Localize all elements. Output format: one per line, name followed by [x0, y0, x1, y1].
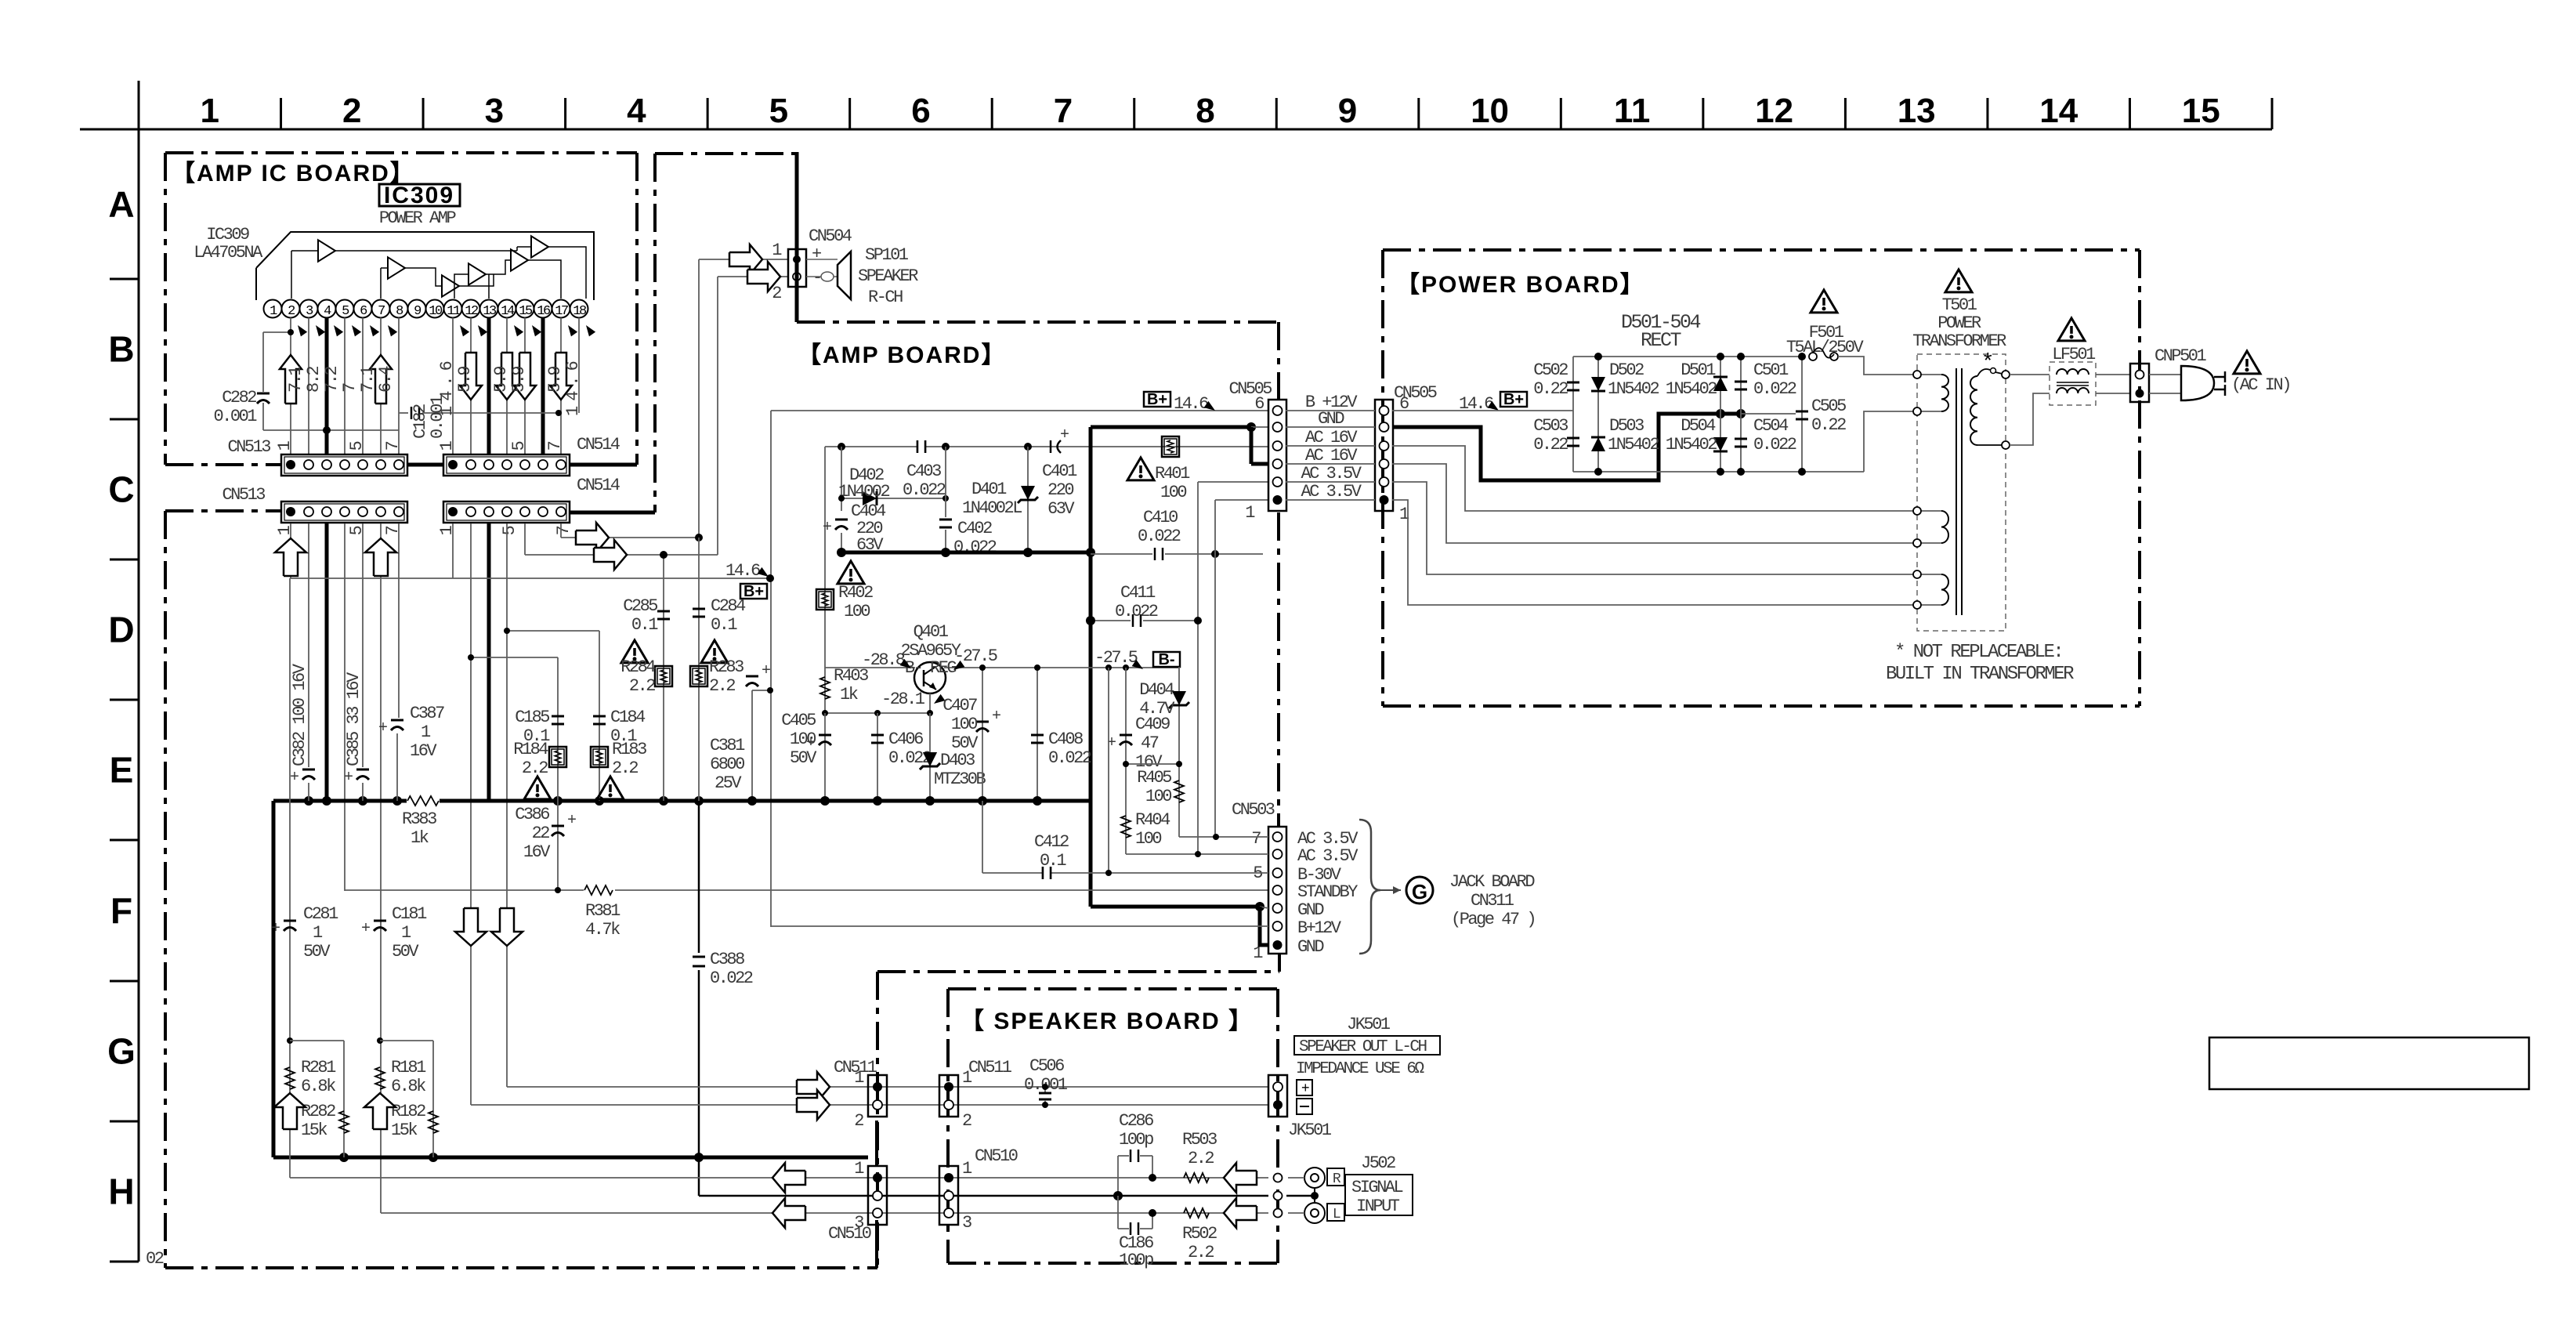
svg-text:R281: R281: [301, 1058, 336, 1077]
svg-text:0.001: 0.001: [213, 407, 257, 426]
svg-text:C382 100 16V: C382 100 16V: [290, 663, 309, 766]
svg-text:【AMP IC BOARD】: 【AMP IC BOARD】: [172, 161, 415, 186]
svg-text:5: 5: [347, 441, 367, 451]
svg-text:CNP501: CNP501: [2155, 346, 2207, 366]
svg-text:SP101: SP101: [865, 245, 909, 265]
svg-text:R404: R404: [1135, 810, 1170, 830]
svg-text:D504: D504: [1681, 416, 1716, 436]
svg-text:R184: R184: [513, 740, 548, 759]
svg-text:5.9: 5.9: [509, 367, 529, 393]
svg-text:2: 2: [288, 304, 295, 319]
svg-text:D: D: [108, 610, 134, 650]
svg-text:B- REG: B- REG: [905, 658, 957, 678]
svg-text:-28.8: -28.8: [862, 650, 905, 670]
svg-text:7: 7: [554, 526, 573, 535]
svg-text:5: 5: [769, 92, 788, 130]
svg-text:2.2: 2.2: [1188, 1243, 1214, 1262]
svg-text:SIGNAL: SIGNAL: [1351, 1178, 1403, 1197]
svg-text:+: +: [812, 244, 821, 264]
svg-text:10: 10: [1471, 92, 1509, 130]
svg-text:5.9: 5.9: [491, 367, 511, 393]
svg-text:13: 13: [483, 304, 497, 319]
svg-text:2: 2: [772, 284, 781, 303]
svg-text:G: G: [1412, 880, 1427, 903]
svg-text:R183: R183: [612, 740, 646, 759]
svg-text:BUILT IN TRANSFORMER: BUILT IN TRANSFORMER: [1886, 664, 2074, 685]
svg-text:C184: C184: [610, 708, 646, 727]
svg-text:STANDBY: STANDBY: [1297, 882, 1358, 902]
svg-text:CN513: CN513: [222, 485, 265, 505]
svg-text:5: 5: [500, 526, 519, 535]
svg-text:47: 47: [1141, 733, 1159, 753]
svg-text:C285: C285: [623, 596, 657, 616]
svg-text:INPUT: INPUT: [1356, 1197, 1400, 1216]
svg-text:AC 3.5V: AC 3.5V: [1301, 464, 1362, 483]
svg-text:R381: R381: [585, 901, 620, 921]
svg-text:0.22: 0.22: [1533, 379, 1568, 399]
svg-text:C: C: [108, 469, 134, 510]
svg-text:17: 17: [555, 304, 568, 319]
svg-text:C408: C408: [1048, 730, 1083, 749]
svg-text:CN513: CN513: [227, 437, 270, 457]
svg-text:C411: C411: [1120, 583, 1156, 603]
svg-text:6: 6: [1254, 394, 1264, 414]
svg-text:B+12V: B+12V: [1297, 918, 1342, 938]
svg-text:0.022: 0.022: [1753, 435, 1796, 454]
svg-text:14.6: 14.6: [563, 356, 583, 416]
svg-text:C505: C505: [1811, 396, 1846, 416]
svg-text:MTZ30B: MTZ30B: [934, 769, 986, 789]
svg-text:6: 6: [911, 92, 930, 130]
svg-text:C386: C386: [515, 805, 549, 824]
svg-text:D403: D403: [940, 751, 975, 770]
svg-text:+: +: [290, 769, 298, 787]
svg-text:0.022: 0.022: [1753, 379, 1796, 399]
svg-text:C504: C504: [1753, 416, 1789, 436]
svg-text:1N4002: 1N4002: [838, 482, 890, 501]
svg-text:SPEAKER: SPEAKER: [858, 266, 918, 286]
svg-text:H: H: [108, 1171, 134, 1212]
svg-text:15: 15: [519, 304, 533, 319]
svg-text:16: 16: [537, 304, 551, 319]
svg-text:7: 7: [383, 526, 403, 535]
svg-text:-27.5: -27.5: [1094, 648, 1138, 668]
svg-text:C387: C387: [410, 704, 444, 723]
svg-text:2.2: 2.2: [629, 676, 655, 696]
svg-text:100: 100: [844, 602, 870, 621]
svg-text:1: 1: [201, 92, 219, 130]
svg-text:C503: C503: [1533, 416, 1568, 436]
svg-text:E: E: [110, 750, 134, 791]
svg-text:AC 16V: AC 16V: [1305, 446, 1359, 465]
svg-text:14: 14: [2039, 92, 2078, 130]
svg-text:JACK BOARD: JACK BOARD: [1449, 872, 1535, 892]
svg-text:2.2: 2.2: [612, 759, 638, 778]
svg-text:R181: R181: [391, 1058, 426, 1077]
svg-text:JK501: JK501: [1347, 1015, 1391, 1034]
svg-text:Q401: Q401: [914, 622, 949, 642]
svg-text:D401: D401: [971, 480, 1007, 499]
svg-text:220: 220: [1047, 480, 1073, 500]
svg-text:2: 2: [962, 1111, 971, 1131]
svg-text:R283: R283: [709, 657, 743, 677]
svg-text:C385 33 16V: C385 33 16V: [344, 672, 364, 766]
svg-text:100p: 100p: [1119, 1130, 1153, 1150]
svg-text:CN514: CN514: [577, 435, 620, 454]
svg-text:C506: C506: [1029, 1056, 1064, 1076]
svg-text:A: A: [108, 184, 134, 225]
svg-text:C412: C412: [1034, 832, 1069, 852]
svg-text:2.2: 2.2: [522, 759, 548, 778]
svg-text:SPEAKER OUT L-CH: SPEAKER OUT L-CH: [1299, 1038, 1427, 1056]
svg-text:B: B: [108, 329, 134, 370]
svg-text:-28.1: -28.1: [881, 690, 925, 709]
svg-text:B+: B+: [1503, 391, 1524, 408]
svg-text:C282: C282: [222, 388, 256, 407]
svg-text:12: 12: [465, 304, 478, 319]
svg-text:7: 7: [378, 304, 385, 319]
svg-text:CN510: CN510: [975, 1146, 1018, 1166]
svg-text:CN504: CN504: [809, 226, 852, 246]
svg-text:7: 7: [1054, 92, 1073, 130]
svg-text:0.22: 0.22: [1533, 435, 1568, 454]
svg-text:+: +: [378, 719, 387, 737]
svg-text:(Page 47 ): (Page 47 ): [1451, 910, 1535, 929]
svg-text:7.1: 7.1: [358, 366, 378, 393]
svg-text:3: 3: [962, 1213, 971, 1233]
svg-text:D503: D503: [1609, 416, 1644, 436]
svg-text:GND: GND: [1318, 409, 1344, 429]
svg-text:100: 100: [790, 730, 816, 749]
svg-text:C181: C181: [392, 904, 427, 924]
svg-text:14.6: 14.6: [437, 356, 457, 416]
svg-text:POWER: POWER: [1937, 313, 1981, 333]
svg-text:C410: C410: [1143, 508, 1178, 527]
svg-text:+: +: [567, 812, 576, 830]
svg-text:R284: R284: [620, 657, 656, 677]
svg-text:5.9: 5.9: [455, 367, 475, 393]
svg-text:CN514: CN514: [577, 476, 620, 495]
svg-text:11: 11: [1614, 92, 1651, 130]
svg-text:F: F: [110, 890, 132, 931]
svg-text:C409: C409: [1135, 715, 1170, 734]
svg-text:7: 7: [545, 441, 565, 451]
svg-text:0.022: 0.022: [1115, 602, 1158, 621]
svg-text:5: 5: [347, 526, 367, 535]
svg-text:7.2: 7.2: [322, 367, 342, 393]
svg-text:GND: GND: [1297, 900, 1324, 920]
svg-text:50V: 50V: [303, 942, 331, 961]
svg-text:CN505: CN505: [1228, 379, 1272, 399]
svg-text:02: 02: [146, 1249, 164, 1269]
svg-text:1N5402: 1N5402: [1666, 435, 1717, 454]
svg-text:R402: R402: [838, 583, 873, 603]
svg-text:100: 100: [1135, 829, 1161, 849]
svg-text:50V: 50V: [392, 942, 419, 961]
svg-text:C401: C401: [1042, 462, 1077, 481]
svg-text:100: 100: [951, 715, 977, 734]
svg-text:LF501: LF501: [2052, 345, 2096, 364]
svg-text:0.022: 0.022: [888, 748, 932, 768]
svg-text:6.4: 6.4: [376, 366, 396, 393]
svg-text:B+: B+: [743, 583, 764, 600]
svg-text:R-CH: R-CH: [868, 288, 903, 307]
svg-text:6.8k: 6.8k: [391, 1077, 426, 1096]
svg-text:【 SPEAKER BOARD 】: 【 SPEAKER BOARD 】: [961, 1008, 1254, 1034]
svg-text:6800: 6800: [710, 755, 744, 774]
svg-text:16V: 16V: [410, 741, 437, 761]
svg-text:D502: D502: [1609, 360, 1644, 380]
svg-text:AC 3.5V: AC 3.5V: [1301, 482, 1362, 501]
svg-text:18: 18: [573, 304, 587, 319]
svg-text:+: +: [271, 920, 280, 938]
svg-text:50V: 50V: [951, 733, 979, 753]
svg-text:14.6: 14.6: [725, 561, 760, 581]
svg-text:C502: C502: [1533, 360, 1568, 380]
svg-text:C284: C284: [711, 596, 746, 616]
svg-text:3: 3: [485, 92, 504, 130]
svg-text:1N5402: 1N5402: [1666, 379, 1717, 399]
svg-text:7: 7: [383, 441, 403, 451]
svg-text:2: 2: [854, 1111, 863, 1131]
svg-text:C286: C286: [1119, 1111, 1153, 1131]
svg-text:7.1: 7.1: [286, 366, 306, 393]
svg-text:G: G: [107, 1031, 136, 1072]
svg-text:5: 5: [509, 441, 529, 451]
svg-text:0.022: 0.022: [710, 969, 753, 988]
svg-text:(AC IN): (AC IN): [2231, 375, 2290, 395]
svg-text:C406: C406: [888, 730, 923, 749]
svg-text:0.022: 0.022: [1138, 527, 1181, 546]
svg-text:CN510: CN510: [828, 1224, 871, 1244]
svg-text:4: 4: [627, 92, 646, 130]
svg-text:13: 13: [1898, 92, 1936, 130]
svg-text:CN503: CN503: [1232, 800, 1275, 820]
svg-text:100: 100: [1145, 787, 1171, 806]
svg-text:R282: R282: [301, 1102, 335, 1121]
svg-text:AC 16V: AC 16V: [1305, 428, 1359, 447]
svg-text:C501: C501: [1753, 360, 1789, 380]
svg-text:1N4002L: 1N4002L: [962, 498, 1022, 518]
svg-text:T501: T501: [1942, 295, 1977, 315]
svg-text:RECT: RECT: [1641, 329, 1682, 352]
svg-text:*: *: [1981, 351, 1992, 375]
svg-text:【AMP BOARD】: 【AMP BOARD】: [798, 342, 1006, 368]
svg-text:* NOT REPLACEABLE:: * NOT REPLACEABLE:: [1894, 642, 2062, 663]
svg-text:TRANSFORMER: TRANSFORMER: [1912, 331, 2006, 351]
svg-text:1N5402: 1N5402: [1608, 379, 1659, 399]
svg-text:R383: R383: [402, 809, 436, 829]
svg-text:B+: B+: [1147, 391, 1167, 408]
svg-text:AC 3.5V: AC 3.5V: [1297, 846, 1359, 866]
svg-text:R182: R182: [391, 1102, 425, 1121]
svg-text:LA4705NA: LA4705NA: [194, 243, 263, 263]
svg-text:0.22: 0.22: [1811, 415, 1846, 435]
svg-text:15: 15: [2182, 92, 2220, 130]
svg-text:7: 7: [340, 383, 360, 393]
svg-text:【POWER BOARD】: 【POWER BOARD】: [1396, 272, 1645, 298]
svg-text:C381: C381: [710, 736, 745, 755]
svg-text:C185: C185: [515, 708, 549, 727]
svg-text:D404: D404: [1139, 680, 1174, 700]
svg-text:63V: 63V: [1047, 499, 1075, 519]
svg-text:C403: C403: [906, 462, 941, 481]
svg-text:22: 22: [532, 824, 550, 843]
svg-text:R401: R401: [1155, 464, 1190, 483]
svg-text:4.7k: 4.7k: [585, 920, 620, 940]
svg-text:14.6: 14.6: [1174, 394, 1208, 414]
svg-text:+: +: [992, 708, 1000, 726]
svg-text:6.8k: 6.8k: [301, 1077, 336, 1096]
svg-text:+: +: [344, 769, 353, 787]
svg-text:11: 11: [447, 304, 461, 319]
svg-text:IC309: IC309: [384, 183, 454, 208]
svg-text:15k: 15k: [391, 1121, 418, 1140]
svg-text:-: -: [812, 268, 821, 288]
svg-text:1N5402: 1N5402: [1608, 435, 1659, 454]
svg-text:C281: C281: [303, 904, 338, 924]
svg-text:IMPEDANCE USE 6Ω: IMPEDANCE USE 6Ω: [1296, 1060, 1424, 1078]
svg-text:9: 9: [1338, 92, 1357, 130]
svg-text:IC309: IC309: [206, 225, 249, 244]
svg-text:GND: GND: [1297, 937, 1324, 957]
svg-text:+: +: [823, 519, 831, 537]
svg-text:C407: C407: [942, 696, 977, 715]
svg-text:0.022: 0.022: [1048, 748, 1091, 768]
svg-text:POWER AMP: POWER AMP: [379, 208, 457, 228]
svg-text:1k: 1k: [840, 685, 859, 704]
svg-text:2: 2: [342, 92, 361, 130]
svg-text:J502: J502: [1361, 1153, 1395, 1173]
svg-text:R403: R403: [834, 666, 868, 686]
svg-text:C388: C388: [710, 950, 744, 969]
svg-text:15k: 15k: [301, 1121, 327, 1140]
svg-text:C405: C405: [781, 711, 816, 730]
svg-text:R405: R405: [1137, 768, 1171, 788]
svg-text:14: 14: [501, 304, 515, 319]
svg-text:10: 10: [429, 304, 443, 319]
svg-text:R503: R503: [1182, 1130, 1217, 1150]
svg-text:8.2: 8.2: [304, 367, 324, 393]
svg-text:16V: 16V: [523, 842, 551, 862]
svg-text:CN311: CN311: [1471, 891, 1514, 911]
svg-text:50V: 50V: [790, 748, 817, 768]
svg-text:25V: 25V: [715, 773, 742, 793]
svg-text:D501: D501: [1681, 360, 1716, 380]
svg-text:CN511: CN511: [968, 1058, 1012, 1077]
svg-text:12: 12: [1755, 92, 1793, 130]
svg-text:B-: B-: [1158, 651, 1174, 668]
svg-text:2.2: 2.2: [709, 676, 735, 696]
svg-text:2.2: 2.2: [1188, 1149, 1214, 1168]
svg-text:R502: R502: [1182, 1224, 1217, 1244]
svg-text:+: +: [762, 662, 770, 680]
svg-text:C402: C402: [957, 519, 992, 538]
svg-text:JK501: JK501: [1288, 1121, 1332, 1140]
svg-text:0.1: 0.1: [1040, 851, 1066, 871]
svg-text:0.1: 0.1: [631, 615, 658, 635]
svg-text:100: 100: [1160, 483, 1186, 502]
svg-text:0.022: 0.022: [903, 480, 946, 500]
svg-text:100p: 100p: [1119, 1251, 1153, 1270]
svg-text:5.9: 5.9: [545, 367, 565, 393]
svg-text:7: 7: [1251, 829, 1261, 849]
svg-text:8: 8: [1196, 92, 1214, 130]
svg-text:1k: 1k: [411, 828, 429, 848]
svg-text:+: +: [361, 920, 370, 938]
svg-text:+: +: [1060, 426, 1069, 444]
svg-text:0.1: 0.1: [711, 615, 737, 635]
